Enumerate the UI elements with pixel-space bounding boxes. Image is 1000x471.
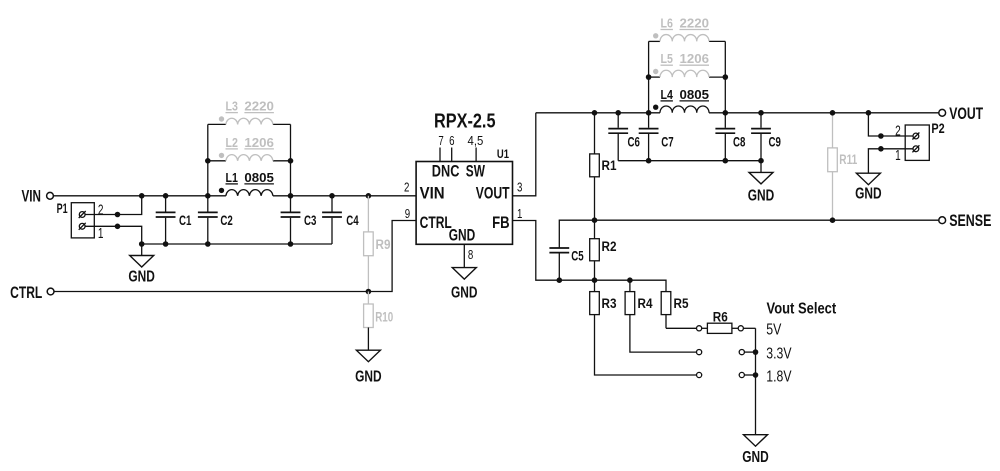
wire ground rail C1-C4: [142, 243, 332, 245]
capacitor C2: [198, 196, 233, 244]
resistor R1: [590, 113, 617, 220]
svg-text:GND: GND: [355, 368, 382, 385]
svg-text:GND: GND: [748, 187, 775, 204]
svg-text:1206: 1206: [244, 136, 274, 150]
node open pad 3.3V row: [739, 350, 744, 355]
connector P1: [57, 200, 104, 242]
wire right L-bank left riser: [648, 41, 650, 112]
pin 7 stub of U1: [438, 133, 443, 162]
ground symbol below C9: [748, 172, 775, 204]
resistor R6: [702, 310, 739, 334]
svg-text:1: 1: [98, 225, 104, 242]
connector P2: [895, 120, 945, 164]
pin 6 stub of U1: [449, 133, 454, 162]
svg-text:4,5: 4,5: [468, 133, 484, 148]
capacitor C1: [156, 196, 192, 244]
node open pad R3 row: [697, 372, 702, 377]
junction 3.3V on select bus: [753, 349, 759, 355]
junction ground rail at GND stub: [139, 241, 145, 247]
svg-text:C5: C5: [571, 248, 584, 263]
wire 3.3V row stub: [744, 351, 755, 353]
wire 5V row to select bus: [743, 327, 755, 329]
wire left L-bank left riser: [207, 124, 209, 195]
svg-text:R2: R2: [602, 239, 617, 254]
wire VIN main line: [54, 195, 226, 197]
svg-text:R9: R9: [376, 237, 391, 252]
svg-text:VOUT: VOUT: [949, 104, 983, 123]
junction L2 left: [205, 158, 211, 164]
svg-text:L5: L5: [661, 52, 673, 66]
pin 2 screw of P2: [912, 133, 919, 140]
svg-text:2220: 2220: [680, 17, 710, 31]
svg-text:1206: 1206: [680, 52, 710, 66]
junction L2 right: [288, 158, 294, 164]
svg-text:L6: L6: [661, 17, 673, 31]
pin 1 screw of P1: [79, 223, 86, 230]
wire select bus down to ground: [755, 328, 757, 434]
wire U1 pin 3 VOUT up to rail: [513, 113, 536, 196]
junction C9 bottom at GND: [758, 158, 764, 164]
junction L5 right: [723, 74, 729, 80]
junction R2 bottom / R3 top: [592, 277, 598, 283]
resistor R2: [590, 220, 617, 280]
wire CTRL line to U1 pin 9: [54, 221, 416, 292]
junction C6 top: [615, 110, 621, 116]
junction on P1 pin 2 wire: [115, 212, 121, 218]
pin 2 screw of P1: [79, 211, 86, 218]
svg-text:0805: 0805: [244, 171, 274, 185]
svg-text:C7: C7: [661, 135, 673, 150]
junction L5 left: [646, 74, 652, 80]
junction 1.8V on select bus: [753, 372, 759, 378]
svg-text:1: 1: [895, 147, 901, 164]
capacitor C7: [639, 113, 674, 161]
svg-text:R11: R11: [839, 152, 857, 167]
junction C8 top: [723, 110, 729, 116]
wire L5 row stubs: [649, 76, 726, 78]
junction R11 top on VOUT rail: [830, 110, 836, 116]
wire VOUT rail after L4 to VOUT terminal: [709, 112, 939, 114]
svg-text:L4: L4: [661, 88, 673, 102]
wire L2 row stubs: [208, 160, 291, 162]
svg-text:C8: C8: [733, 135, 746, 150]
node open pad 1.8V row: [739, 372, 744, 377]
pin 8 stub of U1: [464, 244, 473, 267]
svg-text:C2: C2: [220, 213, 232, 228]
svg-text:1.8V: 1.8V: [766, 369, 792, 386]
svg-text:P1: P1: [57, 200, 68, 216]
svg-text:L3: L3: [226, 100, 238, 114]
svg-text:R3: R3: [602, 296, 617, 311]
svg-text:VOUT: VOUT: [476, 183, 510, 202]
svg-text:C6: C6: [628, 135, 641, 150]
junction C7 top: [646, 110, 652, 116]
capacitor C4: [322, 196, 359, 244]
inductor L3 (not fitted, grey): [219, 100, 274, 125]
ground symbol below U1: [451, 268, 478, 302]
svg-text:6: 6: [449, 133, 454, 148]
junction C2 top: [205, 193, 211, 199]
svg-text:3.3V: 3.3V: [766, 346, 792, 363]
capacitor C6: [608, 113, 640, 161]
svg-text:L2: L2: [226, 136, 238, 150]
junction C9 top: [758, 110, 764, 116]
wire P1 pin 1 to ground rail: [85, 226, 141, 244]
resistor R5: [661, 292, 696, 329]
junction C8 bottom: [723, 158, 729, 164]
inductor L2 (not fitted, grey): [219, 136, 274, 161]
wire P2 pin 2 from VOUT rail: [868, 113, 913, 136]
svg-text:VIN: VIN: [22, 186, 42, 205]
junction P2 riser on VOUT rail: [866, 110, 872, 116]
svg-text:R5: R5: [674, 296, 689, 311]
ground symbol below P2: [855, 173, 882, 202]
svg-text:3: 3: [517, 179, 522, 194]
junction C1 top: [163, 193, 169, 199]
junction C7 bottom: [646, 158, 652, 164]
junction C3 top: [288, 193, 294, 199]
svg-text:GND: GND: [449, 226, 476, 245]
junction R4 top on FB wire: [627, 277, 633, 283]
capacitor C8: [715, 113, 745, 161]
ground symbol below P1: [128, 256, 155, 286]
capacitor C3: [281, 196, 317, 244]
resistor R10 (not fitted, grey): [364, 292, 394, 351]
svg-text:2: 2: [404, 179, 409, 194]
svg-text:R4: R4: [638, 296, 653, 311]
svg-text:C1: C1: [179, 213, 192, 228]
svg-text:GND: GND: [742, 449, 769, 466]
svg-text:C3: C3: [304, 213, 317, 228]
wire L3 row stubs: [208, 123, 291, 125]
ground symbol below R10: [355, 350, 382, 385]
wire P2 pin 1 to ground: [868, 149, 913, 173]
svg-text:2: 2: [98, 202, 104, 219]
junction C1 bottom: [163, 241, 169, 247]
svg-text:CTRL: CTRL: [10, 283, 42, 302]
svg-text:C4: C4: [346, 213, 359, 228]
junction C4 top: [329, 193, 335, 199]
svg-text:U1: U1: [497, 149, 510, 161]
wire ground rail C6-C9: [618, 160, 761, 162]
wire U1 pin 1 FB down and right: [513, 221, 667, 292]
junction C2 bottom: [205, 241, 211, 247]
svg-text:7: 7: [438, 133, 443, 148]
resistor R4: [625, 280, 696, 352]
pin 4,5 stub of U1: [468, 133, 484, 162]
inductor L1: [219, 171, 274, 196]
capacitor C9: [751, 113, 781, 161]
svg-text:1: 1: [517, 206, 522, 221]
wire VOUT rail to L4: [536, 112, 660, 114]
junction C5 bottom on FB wire: [557, 277, 563, 283]
svg-text:SW: SW: [466, 161, 486, 180]
resistor R3: [590, 280, 697, 375]
svg-text:L1: L1: [226, 171, 238, 185]
wire right L-bank right riser: [724, 41, 726, 112]
junction R9 top on VIN line: [366, 193, 372, 199]
wire GND stub below P1: [141, 244, 143, 256]
svg-text:CTRL: CTRL: [420, 213, 452, 232]
junction R1 top on VOUT rail: [592, 110, 598, 116]
svg-text:P2: P2: [931, 120, 944, 136]
node CTRL terminal: [10, 283, 54, 302]
svg-text:2220: 2220: [244, 100, 274, 114]
svg-text:GND: GND: [855, 185, 882, 202]
node SENSE terminal: [939, 211, 992, 230]
resistor R9 (not fitted, grey): [364, 196, 391, 292]
svg-text:SENSE: SENSE: [949, 211, 991, 230]
wire L6 row stubs: [649, 40, 726, 42]
wire FB/SENSE line: [559, 220, 939, 248]
svg-text:R10: R10: [375, 310, 393, 325]
junction CTRL at R9/R10: [366, 289, 372, 295]
junction P1 pin2 riser on VIN line: [139, 193, 145, 199]
svg-text:9: 9: [405, 206, 410, 221]
inductor L6 (not fitted, grey): [653, 17, 709, 42]
capacitor C5: [549, 248, 584, 280]
node VOUT terminal: [939, 104, 984, 123]
node open pad R4 row: [697, 350, 702, 355]
svg-text:Vout Select: Vout Select: [767, 301, 837, 318]
svg-text:GND: GND: [128, 269, 155, 286]
svg-text:VIN: VIN: [420, 183, 445, 202]
inductor L5 (not fitted, grey): [653, 52, 709, 77]
wire 1.8V row stub: [744, 374, 755, 376]
svg-text:DNC: DNC: [432, 161, 460, 180]
junction R1 bottom / R2 top on sense line: [592, 217, 598, 223]
svg-text:C9: C9: [769, 135, 781, 150]
svg-text:R6: R6: [713, 310, 728, 325]
ground symbol below select bus: [742, 435, 769, 466]
junction on P1 pin 1 wire: [115, 224, 121, 230]
resistor R11 (not fitted, grey): [828, 113, 858, 220]
node open pad R5 side: [697, 326, 702, 331]
inductor L4: [653, 88, 709, 113]
svg-text:RPX-2.5: RPX-2.5: [434, 110, 496, 132]
wire left L-bank right riser: [290, 124, 292, 195]
junction R11 bottom on SENSE line: [830, 217, 836, 223]
junction on P2 pin 2 wire: [878, 133, 884, 139]
svg-text:2: 2: [895, 122, 901, 139]
junction C3 bottom: [288, 241, 294, 247]
pin 1 screw of P2: [912, 145, 919, 152]
junction on P2 pin 1 wire: [878, 146, 884, 152]
wire P1 pin 2 to VIN line: [85, 196, 141, 215]
svg-text:5V: 5V: [766, 321, 782, 338]
svg-text:FB: FB: [492, 213, 510, 232]
svg-text:R1: R1: [602, 158, 617, 173]
wire GND stub below C9: [760, 161, 762, 173]
svg-text:GND: GND: [451, 284, 478, 301]
svg-text:0805: 0805: [680, 88, 710, 102]
node VIN terminal: [22, 186, 54, 205]
svg-text:8: 8: [468, 247, 473, 262]
node open pad after R6: [738, 326, 743, 331]
op-module U1 RPX-2.5 body: [416, 110, 512, 244]
wire VIN line after L1 to U1 pin 2: [273, 195, 416, 197]
